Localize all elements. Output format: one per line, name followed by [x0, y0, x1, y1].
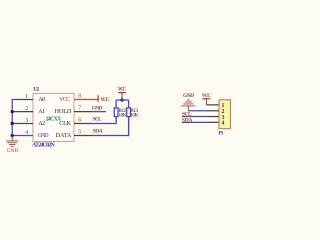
svg-text:A1: A1	[38, 108, 45, 115]
svg-text:U1: U1	[33, 87, 39, 93]
svg-text:SDA: SDA	[93, 129, 103, 135]
wire row1 left	[12, 98, 15, 100]
P1 pin 1 stub	[207, 104, 219, 106]
resistor R13 body	[127, 108, 131, 117]
wire SDA to P1 pin4	[182, 121, 207, 123]
pin 1 stub	[15, 98, 33, 100]
wire left bus vertical	[11, 99, 13, 135]
wire SDA	[92, 117, 129, 136]
power port VCC mid bar	[118, 92, 126, 94]
svg-text:10K: 10K	[118, 113, 126, 119]
pin 2 stub	[15, 111, 33, 113]
P1 pin 3 stub	[207, 116, 219, 118]
junction VCC rail	[120, 98, 123, 101]
svg-text:VCC: VCC	[118, 86, 127, 92]
wire R12 top lead	[115, 100, 117, 108]
svg-text:4: 4	[221, 121, 224, 127]
svg-text:A0: A0	[38, 96, 45, 103]
wire GND net at pin 7	[92, 111, 106, 113]
svg-text:8: 8	[78, 94, 81, 100]
svg-text:VCC: VCC	[100, 97, 110, 103]
wire VCC to P1 pin1	[206, 99, 207, 105]
resistor R12 body	[114, 108, 118, 117]
svg-text:GND: GND	[92, 106, 103, 112]
wire SCL to P1 pin3	[182, 116, 207, 118]
P1 pin 2 stub	[207, 110, 219, 112]
junction row2	[11, 110, 14, 113]
svg-text:A2: A2	[38, 120, 45, 127]
svg-text:DATA: DATA	[56, 132, 72, 139]
wire SCL	[92, 117, 116, 124]
IC U1 body	[33, 93, 74, 141]
svg-text:5: 5	[78, 130, 81, 136]
wire R13 bottom lead	[128, 117, 130, 136]
power port VCC bar at pin 8	[97, 95, 99, 102]
wire R13 top lead	[128, 100, 130, 108]
svg-text:HOLD: HOLD	[55, 108, 72, 115]
wire GND to P1 pin2	[188, 110, 207, 112]
wire row2 left	[12, 111, 15, 113]
svg-text:AT24C02N: AT24C02N	[32, 142, 56, 148]
pin 8 wire (red) to VCC	[74, 98, 98, 100]
ground symbol left	[6, 136, 18, 147]
svg-text:GND: GND	[183, 93, 194, 99]
svg-text:6: 6	[78, 118, 81, 124]
P1 pin 4 stub	[207, 121, 219, 123]
wire R12 bottom lead	[115, 117, 117, 124]
power port VCC right bar	[202, 98, 210, 100]
pin 7 stub	[74, 111, 92, 113]
svg-text:CLK: CLK	[59, 120, 71, 127]
svg-text:7: 7	[78, 106, 81, 112]
junction row4	[11, 134, 14, 137]
pin 4 wire (blue)	[12, 135, 33, 137]
svg-text:SCL: SCL	[93, 117, 102, 123]
svg-text:10K: 10K	[130, 113, 138, 119]
junction row3	[11, 122, 14, 125]
svg-text:SDA: SDA	[182, 118, 192, 124]
svg-text:GND: GND	[7, 148, 18, 154]
pin 5 stub	[74, 135, 92, 137]
power port VCC mid stem	[121, 93, 123, 100]
svg-text:P1: P1	[218, 130, 223, 136]
svg-text:VCC: VCC	[59, 96, 70, 103]
wire row3 left	[12, 122, 15, 124]
wire VCC rail	[116, 99, 129, 101]
connector P1 body	[219, 100, 230, 129]
pin 3 stub	[15, 122, 33, 124]
svg-text:4: 4	[25, 130, 28, 136]
ground symbol right (pointing up)	[181, 100, 195, 111]
svg-text:GND: GND	[38, 132, 50, 139]
pin 6 stub	[74, 122, 92, 124]
